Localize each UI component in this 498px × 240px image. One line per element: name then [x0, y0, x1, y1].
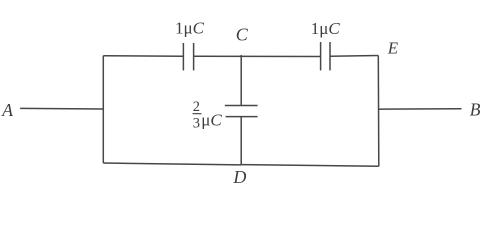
wire: top side, left corner to capacitor C1 left plate	[103, 55, 183, 58]
wire: lead from terminal A to left side of network	[20, 107, 103, 110]
wire: top side, capacitor C1 right plate to capacitor C2 left plate (through node C)	[194, 55, 321, 57]
svg-text:D: D	[232, 167, 246, 187]
wire: left vertical side of network	[102, 56, 104, 163]
value label 2/3 uC for capacitor C3	[193, 99, 223, 131]
wire: bottom side from left corner to node D	[103, 163, 241, 165]
svg-text:E: E	[387, 38, 399, 57]
svg-text:μC: μC	[201, 110, 222, 129]
svg-text:1μC: 1μC	[175, 19, 205, 38]
svg-text:3: 3	[193, 115, 200, 131]
svg-text:C: C	[236, 24, 249, 44]
wire: middle branch from capacitor C3 bottom plate down to node D	[240, 117, 242, 165]
capacitor C2 (1uC) plates on top-right branch	[321, 42, 330, 70]
capacitor C1 (1uC) plates on top-left branch	[183, 43, 193, 70]
wire: top side, capacitor C2 right plate to top-right corner E	[330, 55, 378, 58]
wire: lead from right side of network to terminal B	[378, 108, 461, 110]
svg-text:B: B	[470, 99, 481, 119]
svg-text:1μC: 1μC	[311, 19, 341, 38]
wire: bottom side from node D to bottom-right corner	[241, 165, 379, 167]
wire: right vertical side of network	[377, 56, 380, 167]
svg-text:A: A	[1, 100, 13, 120]
wire: middle branch from node C down to capacitor C3 top plate	[240, 55, 242, 106]
svg-text:2: 2	[193, 99, 200, 115]
capacitor C3 (2/3 uC) plates on middle branch	[225, 106, 258, 117]
